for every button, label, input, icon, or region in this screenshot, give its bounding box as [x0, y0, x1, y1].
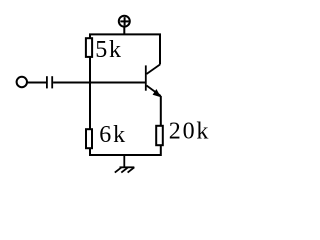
input terminal circle — [17, 77, 27, 87]
resistor 5k — [86, 38, 92, 57]
wire — [90, 82, 146, 84]
wire — [90, 145, 161, 155]
wire — [53, 82, 90, 84]
wire — [160, 96, 162, 126]
resistor 20k — [156, 126, 163, 145]
wire — [27, 82, 46, 84]
resistor 6k — [86, 129, 92, 148]
ground — [115, 155, 135, 173]
transistor Q1 — [146, 65, 161, 97]
svg-text:5k: 5k — [95, 37, 123, 63]
svg-text:6k: 6k — [99, 122, 127, 148]
wire — [89, 57, 91, 129]
wire — [90, 34, 160, 64]
power supply + — [119, 16, 130, 35]
emitter arrow — [153, 89, 161, 97]
capacitor C1 — [47, 76, 52, 88]
svg-text:20k: 20k — [169, 119, 210, 145]
